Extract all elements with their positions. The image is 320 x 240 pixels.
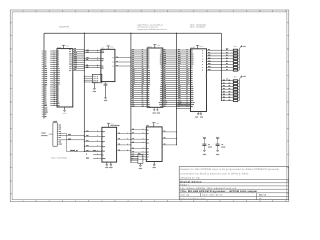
svg-text:D5: D5 [148,96,150,98]
svg-text:A18: A18 [45,84,48,86]
wires CON1 to IC1 [50,50,57,52]
svg-text:A11: A11 [148,72,151,74]
svg-text:Y1: Y1 [164,131,166,133]
IC IC1 74HCT541 [101,49,115,81]
svg-text:D0: D0 [132,85,134,87]
svg-text:A6: A6 [45,60,47,62]
svg-text:A16: A16 [102,136,105,138]
svg-text:A17: A17 [86,140,89,142]
svg-text:A18: A18 [58,84,61,86]
svg-text:Y3: Y3 [118,144,120,146]
svg-text:A16: A16 [178,97,181,99]
svg-text:A13: A13 [45,74,48,76]
svg-text:D7: D7 [132,99,134,101]
svg-text:D13: D13 [178,59,181,61]
svg-text:designed by zap: designed by zap [180,177,200,180]
svg-text:A1: A1 [191,68,193,70]
svg-text:A5: A5 [161,76,163,78]
svg-text:A16: A16 [186,81,189,83]
svg-text:A11: A11 [45,70,48,72]
svg-text:D13: D13 [208,63,211,65]
svg-text:A1: A1 [45,51,47,53]
svg-text:BYTE: BYTE [164,101,168,103]
svg-text:A17: A17 [148,84,151,86]
svg-text:D14: D14 [69,60,72,62]
svg-text:A11: A11 [191,88,194,90]
svg-text:A19: A19 [101,50,104,52]
svg-text:A5: A5 [178,75,180,77]
svg-text:D10: D10 [69,53,72,55]
svg-text:A6: A6 [191,78,193,80]
svg-text:D13: D13 [160,60,163,62]
svg-text:OE: OE [148,104,150,106]
svg-text:ZIF40: ZIF40 [205,74,208,78]
svg-text:D8: D8 [178,49,180,51]
svg-text:D4: D4 [148,94,150,96]
svg-text:A12: A12 [142,73,145,75]
svg-text:D11: D11 [69,55,72,57]
ground C3 [105,85,107,97]
svg-text:D13: D13 [164,59,167,61]
svg-text:A16: A16 [58,80,61,82]
svg-text:A7: A7 [132,156,134,158]
ground JP1 [93,83,95,89]
svg-text:A8: A8 [178,81,180,83]
svg-text:D11: D11 [178,55,181,57]
svg-text:D8: D8 [161,50,163,52]
svg-text:A2: A2 [58,53,60,55]
svg-text:VPP: VPP [148,106,151,108]
svg-text:Y2: Y2 [118,138,120,140]
svg-text:D9: D9 [164,51,166,53]
svg-text:D4: D4 [45,94,47,96]
svg-text:CE: CE [101,65,103,67]
svg-text:A6: A6 [178,77,180,79]
svg-text:A21: A21 [101,58,104,60]
power VCC IC2 [107,46,109,49]
svg-text:R4: R4 [229,88,231,90]
svg-text:A6: A6 [58,60,60,62]
svg-text:A5: A5 [132,151,134,153]
svg-text:D1: D1 [45,88,47,90]
svg-text:A21: A21 [86,57,89,59]
svg-text:A2: A2 [148,54,150,56]
svg-text:NC: NC [160,106,162,108]
svg-text:A4: A4 [178,73,180,75]
svg-text:D7: D7 [223,99,225,101]
svg-text:Size: A4: Size: A4 [180,194,190,197]
svg-text:P2: P2 [59,127,61,129]
svg-text:A7: A7 [178,79,180,81]
IC CON3 ZIF42 socket [131,49,147,51]
svg-text:A7: A7 [58,62,60,64]
svg-text:Y3: Y3 [116,65,118,67]
svg-text:GND: GND [200,117,203,119]
svg-text:D15: D15 [178,63,181,65]
svg-text:D9: D9 [74,50,76,52]
svg-text:D2: D2 [223,85,225,87]
svg-text:A10: A10 [58,68,61,70]
svg-text:A13: A13 [142,75,145,77]
svg-text:D3: D3 [45,92,47,94]
svg-text:A17: A17 [102,141,105,143]
svg-text:A5: A5 [147,152,149,154]
svg-text:A3: A3 [132,141,134,143]
wires IC3 to IC4 via bus4 [163,49,191,51]
svg-text:A10: A10 [132,69,135,71]
svg-text:A4: A4 [164,73,166,75]
svg-text:R1: R1 [229,79,231,81]
svg-text:A1: A1 [178,67,180,69]
svg-text:A17: A17 [142,83,145,85]
svg-text:A20: A20 [69,66,72,68]
node rail-bus2 [84,33,85,34]
svg-text:BYTE: BYTE [159,102,163,104]
svg-text:100nF: 100nF [221,146,225,148]
svg-text:A15: A15 [191,96,194,98]
svg-text:D14: D14 [164,61,167,63]
svg-text:CE: CE [58,101,60,103]
svg-text:P10: P10 [59,144,62,146]
svg-text:D11: D11 [208,58,211,60]
svg-text:D9: D9 [178,51,180,53]
svg-text:A6: A6 [164,77,166,79]
svg-text:D6: D6 [45,97,47,99]
svg-text:jumpers set to EPROM mode, see: jumpers set to EPROM mode, see text [137,28,167,31]
svg-text:D12: D12 [208,60,211,62]
svg-text:A15: A15 [102,131,105,133]
svg-text:D1: D1 [148,88,150,90]
svg-text:OE: OE [142,103,144,105]
svg-text:D10: D10 [178,53,181,55]
svg-text:A12: A12 [45,72,48,74]
svg-text:D8: D8 [191,50,193,52]
svg-text:VPP: VPP [132,105,135,107]
node rail-bus4 [176,33,177,34]
power VCC IC4 [197,45,199,48]
svg-text:D2: D2 [148,90,150,92]
svg-text:A7: A7 [191,80,193,82]
svg-text:D5: D5 [58,95,60,97]
svg-text:A11: A11 [164,87,167,89]
svg-text:A2: A2 [132,53,134,55]
power VCC IC1 [63,45,65,48]
svg-text:A4: A4 [148,58,150,60]
svg-text:NC: NC [69,70,71,72]
svg-text:OE: OE [132,103,134,105]
svg-text:D15: D15 [208,69,211,71]
svg-text:D14: D14 [178,61,181,63]
svg-text:GND: GND [86,157,89,159]
svg-text:Y1: Y1 [118,132,120,134]
svg-text:A4: A4 [191,74,193,76]
svg-text:A14: A14 [191,94,194,96]
sheet border frame [10,10,289,202]
svg-text:OE: OE [45,103,47,105]
svg-text:A4: A4 [45,56,47,58]
svg-text:A12: A12 [132,73,135,75]
svg-text:A3: A3 [58,54,60,56]
svg-text:A13: A13 [191,92,194,94]
svg-text:A12: A12 [148,74,151,76]
svg-text:P1: P1 [59,124,61,126]
svg-text:NC: NC [191,106,193,108]
svg-text:D1: D1 [58,88,60,90]
wire CON5 to bus2 b [61,139,84,141]
svg-text:D14: D14 [160,62,163,64]
net bus4 vertical [175,33,177,145]
svg-text:D9: D9 [191,52,193,54]
svg-text:A1: A1 [147,133,149,135]
svg-text:CE: CE [148,102,150,104]
ground IC4 a [197,112,199,114]
VCC power rail [44,32,221,34]
svg-text:D6: D6 [148,98,150,100]
svg-text:GND: GND [195,117,198,119]
svg-text:ZIF42 : 27C160/322: ZIF42 : 27C160/322 [190,26,205,29]
svg-text:WE: WE [101,67,103,69]
svg-text:GND: GND [191,104,194,106]
svg-text:A4: A4 [132,147,134,149]
svg-text:G: G [147,159,148,161]
svg-text:A15: A15 [86,130,89,132]
svg-text:P9: P9 [59,141,61,143]
ground C2 [217,150,219,152]
svg-text:A13: A13 [132,75,135,77]
svg-text:VPP: VPP [142,105,145,107]
node rail-bus3 [130,33,131,34]
ground pins IC3 [153,107,155,110]
svg-text:A12: A12 [160,90,163,92]
svg-text:A9: A9 [45,66,47,68]
svg-text:A21: A21 [74,67,77,69]
svg-text:BYTE: BYTE [191,102,195,104]
svg-text:A7: A7 [45,62,47,64]
svg-text:A1: A1 [132,51,134,53]
svg-text:C1: C1 [208,144,210,146]
svg-text:D10: D10 [74,52,77,54]
svg-text:A15: A15 [164,95,167,97]
svg-text:ADAPTER: ADAPTER [59,25,69,28]
svg-text:D3: D3 [132,91,134,93]
svg-text:A15: A15 [132,79,135,81]
svg-text:A15: A15 [160,96,163,98]
svg-text:OE: OE [86,59,88,61]
svg-text:D14: D14 [208,66,211,68]
svg-text:A8: A8 [132,65,134,67]
svg-text:Email: /: Email: / [180,184,189,187]
svg-text:R2: R2 [229,82,231,84]
svg-text:A8: A8 [58,64,60,66]
svg-text:A11: A11 [178,87,181,89]
svg-text:A15: A15 [142,79,145,81]
svg-text:A4: A4 [132,57,134,59]
svg-text:A19: A19 [86,49,89,51]
svg-text:CE: CE [45,101,47,103]
svg-text:D4: D4 [58,93,60,95]
svg-text:D15: D15 [160,64,163,66]
svg-text:A12: A12 [164,89,167,91]
svg-text:A7: A7 [164,79,166,81]
jumper JP1 [92,74,102,83]
svg-text:A21: A21 [69,68,72,70]
svg-text:D0: D0 [223,79,225,81]
svg-text:100nF: 100nF [208,146,212,148]
svg-text:D3: D3 [223,88,225,90]
svg-text:GND: GND [102,158,105,160]
svg-text:A12: A12 [58,72,61,74]
svg-text:A0: A0 [164,65,166,67]
svg-text:A13: A13 [164,91,167,93]
svg-text:A1: A1 [164,67,166,69]
svg-text:A15: A15 [45,78,48,80]
svg-text:D15: D15 [69,62,72,64]
svg-text:A11: A11 [142,71,144,73]
svg-text:D8: D8 [208,49,210,51]
title block [179,167,288,200]
svg-text:1/1: 1/1 [259,197,261,200]
IC U1 DIP42 socket [57,49,73,107]
svg-text:A16: A16 [142,81,145,83]
svg-text:VCC: VCC [45,110,48,112]
svg-text:A10: A10 [160,86,163,88]
svg-text:D2: D2 [132,89,134,91]
svg-text:Rev: 1.0: Rev: 1.0 [259,194,266,197]
svg-text:A0: A0 [161,66,163,68]
svg-text:D7: D7 [148,100,150,102]
svg-text:D12: D12 [191,58,194,60]
svg-text:A13: A13 [186,75,189,77]
svg-text:Date: 2007-06-10: Date: 2007-06-10 [202,194,223,197]
svg-text:CE: CE [132,101,134,103]
svg-text:Y2: Y2 [116,61,118,63]
svg-text:A17: A17 [58,82,61,84]
svg-text:A0: A0 [132,49,134,51]
ground IC1 [64,107,66,110]
svg-text:A12: A12 [191,90,194,92]
svg-text:D11: D11 [164,55,167,57]
svg-text:D12: D12 [69,57,72,59]
svg-text:A7: A7 [148,64,150,66]
svg-text:VPP: VPP [45,107,48,109]
svg-text:A4: A4 [147,148,149,150]
wires IC1 right to bus2 [73,48,85,50]
net bus3 vertical [130,33,132,162]
svg-text:CE: CE [86,65,88,67]
svg-text:A20: A20 [86,51,89,53]
power VCC IC3 [154,45,156,48]
jumper JP2 [138,155,143,164]
svg-text:CON5 =: CON5 = [41,133,46,135]
svg-text:D8: D8 [74,48,76,50]
svg-text:A16: A16 [45,80,48,82]
svg-text:A11: A11 [160,88,163,90]
svg-text:A19: A19 [86,150,89,152]
svg-text:OE: OE [58,103,60,105]
svg-text:D3: D3 [58,92,60,94]
svg-text:D8: D8 [69,49,71,51]
svg-text:D13: D13 [69,58,72,60]
svg-text:A20: A20 [74,65,77,67]
svg-text:D9: D9 [208,52,210,54]
svg-text:A0: A0 [178,65,180,67]
svg-text:A9: A9 [191,84,193,86]
svg-text:A14: A14 [178,93,181,95]
svg-text:Print: 1.4.0 EAGLE: 4.16r2: Print: 1.4.0 EAGLE: 4.16r2 [180,197,205,200]
svg-text:A19: A19 [69,64,72,66]
svg-text:A2: A2 [191,70,193,72]
svg-text:connected from DU22 & extensio: connected from DU22 & extension port to … [180,172,249,175]
svg-text:D12: D12 [178,57,181,59]
svg-text:A16: A16 [148,82,151,84]
svg-text:A5: A5 [148,60,150,62]
svg-text:D11: D11 [191,56,194,58]
svg-text:A10: A10 [164,85,167,87]
svg-text:A16: A16 [164,97,167,99]
svg-text:+5V/GND PULL+5V: +5V/GND PULL+5V [178,104,191,106]
svg-text:D10: D10 [208,55,211,57]
svg-text:D6: D6 [223,96,225,98]
svg-text:A11: A11 [186,71,188,73]
svg-text:A3: A3 [191,72,193,74]
svg-text:A17: A17 [45,82,48,84]
svg-text:D4: D4 [223,91,225,93]
svg-text:D4: D4 [132,93,134,95]
svg-text:NC: NC [74,69,76,71]
connector CON5 extension [53,123,57,146]
svg-text:A14: A14 [160,94,163,96]
svg-text:D11: D11 [74,54,77,56]
svg-text:A8: A8 [164,81,166,83]
svg-text:A15: A15 [186,79,189,81]
svg-text:A2: A2 [45,53,47,55]
svg-text:D6: D6 [58,97,60,99]
ground C1 [203,150,205,152]
svg-text:D1: D1 [223,82,225,84]
svg-text:WE: WE [86,66,88,68]
svg-text:A7: A7 [161,80,163,82]
svg-text:D7: D7 [58,99,60,101]
svg-text:A8: A8 [148,66,150,68]
svg-text:GND: GND [45,112,48,114]
svg-text:A3: A3 [178,71,180,73]
svg-text:R3: R3 [229,85,231,87]
svg-text:A2: A2 [147,139,149,141]
wire CON5 drop to IC5 [65,133,67,151]
svg-text:D6: D6 [132,97,134,99]
capacitor C3 [105,82,107,84]
svg-text:A16: A16 [160,98,163,100]
svg-text:A15: A15 [148,80,151,82]
svg-text:A17: A17 [186,83,189,85]
svg-text:NC: NC [164,105,166,107]
svg-text:A9: A9 [148,68,150,70]
svg-text:A1: A1 [148,52,150,54]
svg-text:NC: NC [45,116,47,118]
svg-text:A14: A14 [132,77,135,79]
svg-text:A9: A9 [178,83,180,85]
net bus5 vertical [220,33,222,100]
svg-text:D13: D13 [74,58,77,60]
svg-text:A14: A14 [58,76,61,78]
svg-text:A16: A16 [132,81,135,83]
ground IC5 a [106,162,108,165]
svg-text:D1: D1 [132,87,134,89]
svg-text:A11: A11 [58,70,61,72]
border zone ticks [35,10,37,12]
svg-text:A3: A3 [45,55,47,57]
svg-text:D12: D12 [74,56,77,58]
